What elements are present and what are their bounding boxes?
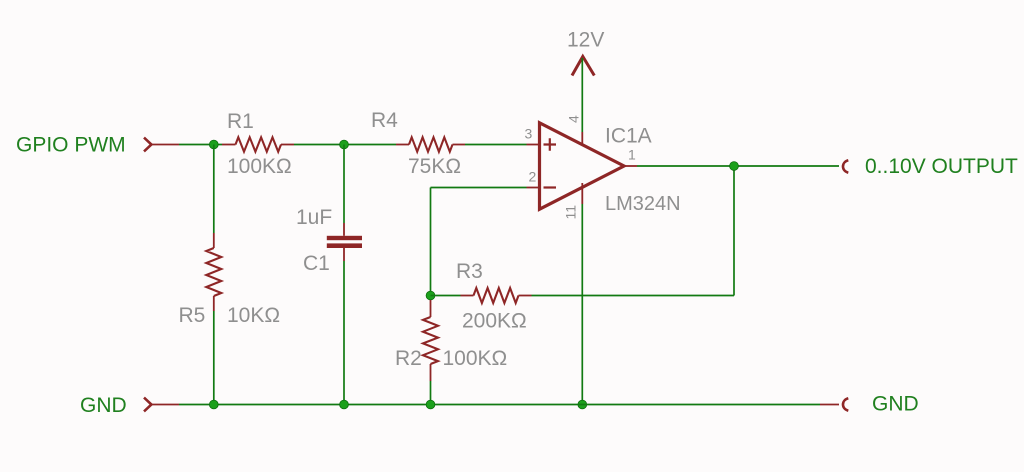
port pinhead GND right: [843, 398, 848, 410]
resistor R1 pin stub left: [222, 144, 236, 146]
svg-text:R2: R2: [395, 347, 422, 370]
wire net feedback vertical: [733, 166, 735, 296]
resistor R3: [474, 288, 519, 303]
svg-text:GND: GND: [872, 393, 919, 416]
wire net R3 left segment: [431, 295, 461, 297]
op-amp IC1A triangle: [540, 123, 625, 209]
wire net R5 branch vertical: [213, 145, 215, 234]
resistor R3 pin stub left: [461, 295, 474, 297]
wire net GPIOPWM segment to R1: [179, 144, 222, 146]
resistor R4 pin stub right: [453, 144, 466, 146]
svg-text:GPIO PWM: GPIO PWM: [16, 134, 126, 157]
resistor R2: [423, 317, 438, 364]
resistor R1: [236, 137, 282, 151]
op-amp minus marker: [544, 186, 557, 188]
wire net R3 right segment feedback: [532, 295, 735, 297]
svg-text:GND: GND: [80, 394, 127, 417]
svg-text:R4: R4: [371, 109, 398, 132]
supply 12V arrow symbol: [572, 57, 594, 76]
resistor R3 pin stub right: [519, 295, 532, 297]
svg-text:R5: R5: [179, 304, 206, 327]
wire port stub GND left: [151, 404, 179, 406]
resistor R5: [206, 248, 221, 296]
op-amp plus marker: [544, 138, 557, 151]
op-amp pin 3 stub: [527, 144, 540, 146]
wire net R2 to GND: [430, 381, 432, 405]
wire net pin 2 vertical to R3 node: [430, 188, 432, 296]
svg-text:12V: 12V: [567, 29, 604, 52]
svg-text:R1: R1: [227, 110, 254, 133]
junction node output feedback: [730, 162, 739, 171]
resistor R2 pin stub bottom: [430, 364, 432, 381]
junction node R2 bottom: [426, 400, 435, 409]
svg-text:75KΩ: 75KΩ: [408, 155, 461, 178]
svg-text:4: 4: [566, 115, 582, 123]
capacitor C1 pin stub top: [343, 223, 345, 236]
svg-text:1uF: 1uF: [296, 206, 332, 229]
junction node R5 bottom: [209, 400, 218, 409]
wire net GND bottom rail: [179, 404, 820, 406]
junction node pin11 at GND: [578, 400, 587, 409]
svg-text:100KΩ: 100KΩ: [227, 155, 292, 178]
svg-text:200KΩ: 200KΩ: [462, 310, 527, 333]
wire net 12V to pin 4: [581, 58, 583, 132]
wire net segment R1 to R4: [294, 144, 396, 146]
port pinhead GPIO PWM: [144, 138, 151, 152]
wire net C1 branch top: [343, 145, 345, 224]
resistor R4: [409, 137, 453, 151]
svg-text:IC1A: IC1A: [605, 125, 652, 148]
wire net segment R4 to opamp pin3: [465, 144, 527, 146]
wire net C1 to GND: [343, 261, 345, 405]
resistor R5 pin stub bottom: [213, 296, 215, 311]
junction node C1 bottom: [340, 400, 349, 409]
port pinhead 0..10V OUTPUT: [843, 160, 848, 172]
wire net pin 2 horizontal: [431, 187, 527, 189]
svg-text:LM324N: LM324N: [605, 193, 681, 215]
capacitor C1 pin stub bottom: [343, 248, 345, 261]
op-amp pin 1 stub: [624, 165, 637, 167]
junction node at C1 top: [340, 140, 349, 149]
op-amp pin 11 stub: [581, 183, 583, 204]
resistor R4 pin stub left: [396, 144, 409, 146]
capacitor C1: [327, 236, 362, 248]
svg-text:C1: C1: [303, 252, 330, 275]
svg-text:10KΩ: 10KΩ: [227, 304, 280, 327]
port pinhead GND left: [144, 398, 151, 412]
resistor R5 pin stub top: [213, 233, 215, 248]
svg-text:2: 2: [529, 169, 537, 185]
wire net R5 to GND: [213, 311, 215, 405]
svg-text:3: 3: [525, 126, 533, 142]
resistor R2 pin stub top: [430, 300, 432, 317]
svg-text:100KΩ: 100KΩ: [443, 347, 508, 370]
svg-text:1: 1: [628, 147, 636, 163]
svg-text:11: 11: [563, 205, 579, 220]
wire port stub GND right: [820, 404, 839, 406]
op-amp pin 2 stub: [527, 187, 540, 189]
wire port stub GPIO PWM: [151, 144, 179, 146]
svg-text:R3: R3: [456, 260, 483, 283]
wire net pin 11 to GND: [581, 204, 583, 405]
wire net output pin1 to port: [637, 165, 839, 167]
junction node R2 top R3 left: [426, 291, 435, 300]
junction node at R5 top: [209, 140, 218, 149]
resistor R1 pin stub right: [281, 144, 294, 146]
op-amp pin 4 stub: [581, 132, 583, 146]
svg-text:0..10V OUTPUT: 0..10V OUTPUT: [865, 155, 1018, 178]
